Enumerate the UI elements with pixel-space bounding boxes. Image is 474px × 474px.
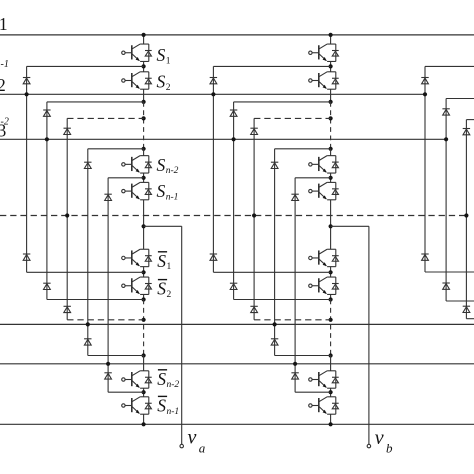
svg-text:2: 2 (0, 75, 6, 95)
wire clamp rail 3 phase C (vertical) (465, 120, 467, 319)
transistor S-bar-2 phase B (IGBT with antiparallel diode) (309, 277, 339, 294)
wire clamp link lower 1 phase C (to edge) (425, 271, 474, 273)
wire clamp link upper n-1 phase B (295, 177, 331, 179)
node phase A clamp junction above Sn-2 (142, 147, 146, 151)
wire clamp link lower 1 phase B (213, 271, 330, 273)
node phase B dashed clamp junction (lower) (329, 318, 333, 322)
wire clamp link upper 3 phase C (to edge) (466, 119, 474, 121)
diode clamp upper D1 phase B (210, 78, 217, 84)
diode clamp upper D4 phase B (271, 162, 278, 168)
wire phase B leg: S-bar-2 emitter to clamp node (330, 294, 332, 299)
svg-text:S: S (157, 395, 166, 415)
node clamp rail 3 (dashed level) phase A bus junction (65, 213, 69, 217)
diode clamp lower D1' phase C (421, 254, 428, 260)
svg-text:S: S (157, 369, 166, 389)
wire clamp link lower 2 phase A (47, 299, 144, 301)
wire phase B leg: S2 emitter past bus2 to clamp node (330, 89, 332, 102)
diode clamp upper D1 phase C (421, 78, 428, 84)
wire phase A leg: Sn-2 emitter to Sn-1 collector (143, 173, 145, 182)
wire phase B leg: Sn-2 emitter to Sn-1 collector (330, 173, 332, 182)
svg-text:b: b (386, 440, 393, 455)
wire clamp link lower 1 phase A (27, 271, 144, 273)
terminal v_a (open circle) (180, 444, 184, 448)
transistor S2 phase A (IGBT with antiparallel diode) (122, 72, 152, 89)
svg-text:a: a (199, 440, 206, 455)
svg-text:S: S (157, 155, 166, 175)
wire clamp link upper 2 phase A (47, 101, 144, 103)
wire bus 1 (top DC rail, node 1) (0, 34, 474, 36)
diode clamp upper D3 phase B (250, 128, 257, 134)
terminal v_b (open circle) (367, 444, 371, 448)
wire bus n-1 (0, 363, 474, 365)
node phase A bottom bus junction (142, 422, 146, 426)
svg-text:n-1: n-1 (166, 193, 179, 203)
wire phase A leg: S-bar-2 emitter to clamp node (143, 294, 145, 299)
svg-text:2: 2 (166, 83, 171, 93)
node phase B bottom bus junction (329, 422, 333, 426)
svg-text:n-1: n-1 (167, 407, 180, 417)
node phase A S-bar-n-2/S-bar-n-1 junction (142, 390, 146, 394)
transistor S1 phase B (IGBT with antiparallel diode) (309, 44, 339, 61)
svg-text:1: 1 (0, 14, 8, 34)
diode clamp upper D3 phase A (63, 128, 70, 134)
transistor S2 phase B (IGBT with antiparallel diode) (309, 72, 339, 89)
wire clamp rail 3 (dashed level) phase B (vertical) (253, 118, 255, 319)
node phase A dashed clamp junction (upper) (142, 116, 146, 120)
wire clamp link lower 2 phase C (to edge) (446, 300, 474, 302)
wire phase B leg dashed continuation (lower) (330, 300, 332, 356)
wire phase A leg dashed continuation (lower) (143, 300, 145, 356)
node clamp rail 1 phase B bus junction (211, 92, 215, 96)
node clamp rail 1 phase C bus junction (423, 92, 427, 96)
node clamp rail 2 phase B bus junction (232, 137, 236, 141)
node phase A output junction (142, 224, 146, 228)
wire clamp rail 2 phase C (vertical) (445, 99, 447, 302)
wire clamp link upper 3 (dashed level) phase B (254, 117, 331, 119)
node clamp rail 1 phase A bus junction (25, 92, 29, 96)
wire clamp link upper 1 phase A (27, 65, 144, 67)
wire clamp rail 3 (dashed level) phase A (vertical) (66, 118, 68, 319)
wire clamp link upper 2 phase C (to edge) (446, 98, 474, 100)
wire clamp rail n-1 phase A (vertical) (107, 178, 109, 392)
wire clamp link upper n-2 phase B (275, 148, 331, 150)
svg-text:1: 1 (166, 56, 171, 66)
wire clamp link lower 3 (dashed level) phase B (254, 319, 331, 321)
svg-text:S: S (157, 45, 166, 65)
wire clamp link lower n-2 phase B (275, 355, 331, 357)
node clamp rail n-1 phase A bus junction (106, 362, 110, 366)
node phase A S1-S2 junction (142, 64, 146, 68)
wire clamp link lower n-1 phase B (295, 391, 331, 393)
wire clamp rail 1 phase B (vertical) (212, 66, 214, 272)
diode clamp lower D2' phase C (442, 283, 449, 289)
transistor S-bar-n-1 phase A (IGBT with antiparallel diode) (122, 397, 152, 414)
wire phase A leg: bus1 to S1 collector (143, 35, 145, 44)
node clamp rail n-2 phase B bus junction (273, 322, 277, 326)
diode clamp lower D5' phase A (104, 373, 111, 379)
node phase A clamp junction above S-bar-n-2 (142, 353, 146, 357)
wire phase B leg dashed continuation (upper) (330, 102, 332, 149)
node phase B output junction (329, 224, 333, 228)
wire clamp link lower n-2 phase A (88, 355, 144, 357)
svg-text:S: S (157, 279, 166, 299)
wire clamp link upper 1 phase C (to edge) (425, 65, 474, 67)
wire bus 2 (node 2) (0, 93, 425, 95)
svg-text:3: 3 (0, 120, 7, 140)
svg-text:S: S (157, 251, 166, 271)
svg-text:S: S (157, 181, 166, 201)
node clamp rail 2 phase C bus junction (444, 137, 448, 141)
svg-text:2: 2 (167, 290, 172, 300)
diode clamp upper D5 phase B (291, 194, 298, 200)
node phase B bus1 junction (329, 33, 333, 37)
wire clamp link upper 2 phase B (234, 101, 331, 103)
wire phase B leg: S-bar-n-1 emitter to bottom bus (330, 414, 332, 424)
wire phase A output horizontal (144, 225, 182, 227)
node phase A Sn-2/Sn-1 junction (142, 176, 146, 180)
svg-text:S: S (157, 72, 166, 92)
svg-text:n-2: n-2 (167, 380, 180, 390)
wire clamp rail n-1 phase B (vertical) (294, 178, 296, 392)
node phase B clamp junction above S-bar-n-2 (329, 353, 333, 357)
node phase A clamp junction below S-bar-2 (142, 297, 146, 301)
transistor S-bar-2 phase A (IGBT with antiparallel diode) (122, 277, 152, 294)
wire clamp link lower n-1 phase A (108, 391, 144, 393)
node phase A bus1 junction (142, 33, 146, 37)
transistor Sn-2 phase B (IGBT with antiparallel diode) (309, 156, 339, 173)
transistor S-bar-1 phase B (IGBT with antiparallel diode) (309, 249, 339, 266)
wire clamp rail 1 phase A (vertical) (26, 66, 28, 272)
node phase A dashed clamp junction (lower) (142, 318, 146, 322)
svg-text:v: v (375, 427, 384, 449)
diode clamp lower D3' phase B (250, 306, 257, 312)
diode clamp lower D5' phase B (291, 373, 298, 379)
diode clamp upper D2 phase C (442, 109, 449, 115)
svg-text:v: v (188, 427, 197, 449)
wire clamp link lower 3 (dashed level) phase A (67, 319, 143, 321)
wire phase B leg: Sn-1 emitter to output node and S-bar-1 (330, 200, 332, 249)
transistor S-bar-n-1 phase B (IGBT with antiparallel diode) (309, 397, 339, 414)
svg-text:1: 1 (167, 262, 172, 272)
wire phase B leg: clamp node to Sn-2 collector (330, 149, 332, 156)
diode clamp lower D1' phase A (23, 254, 30, 260)
wire clamp rail n-2 phase A (vertical) (87, 149, 89, 356)
diode clamp lower D4' phase A (84, 339, 91, 345)
diode clamp lower D3' phase C (463, 306, 470, 312)
wire phase A leg: clamp node to S-bar-n-2 collector (143, 356, 145, 371)
transistor Sn-1 phase A (IGBT with antiparallel diode) (122, 182, 152, 199)
node clamp rail 3 (dashed level) phase B bus junction (252, 213, 256, 217)
wire phase A leg: Sn-1 emitter to output node and S-bar-1 (143, 200, 145, 249)
wire clamp link upper 1 phase B (213, 65, 330, 67)
svg-text:n-2: n-2 (166, 166, 179, 176)
wire clamp rail 1 phase C (vertical) (424, 66, 426, 272)
node phase B S-bar-n-2/S-bar-n-1 junction (329, 390, 333, 394)
wire clamp rail 2 phase A (vertical) (46, 102, 48, 300)
wire clamp link lower 2 phase B (234, 299, 331, 301)
diode clamp lower D3' phase A (63, 306, 70, 312)
wire bus 3 (node 3) (0, 138, 446, 140)
wire phase A leg: S1 emitter to S2 collector (143, 62, 145, 72)
wire phase B leg: S-bar-n-2 emitter to S-bar-n-1 collector (330, 388, 332, 397)
node phase A S-bar-1/S-bar-2 junction (142, 270, 146, 274)
diode clamp lower D4' phase B (271, 339, 278, 345)
diode clamp upper D5 phase A (104, 194, 111, 200)
wire phase A leg: S-bar-n-2 emitter to S-bar-n-1 collector (143, 388, 145, 397)
wire phase A output vertical to terminal (181, 226, 183, 444)
wire phase B leg: bus1 to S1 collector (330, 35, 332, 44)
wire phase B output horizontal (331, 225, 369, 227)
node phase B clamp junction below S-bar-2 (329, 297, 333, 301)
wire clamp link upper n-1 phase A (108, 177, 144, 179)
diode clamp upper D3 phase C (463, 129, 470, 135)
transistor S1 phase A (IGBT with antiparallel diode) (122, 44, 152, 61)
node phase B clamp junction above Sn-2 (329, 147, 333, 151)
node phase B Sn-2/Sn-1 junction (329, 176, 333, 180)
wire phase A leg: S2 emitter past bus2 to clamp node (143, 89, 145, 102)
wire phase B leg: S-bar-1 emitter to S-bar-2 collector (330, 267, 332, 278)
wire bus n-2 (0, 323, 474, 325)
diode clamp lower D2' phase A (43, 283, 50, 289)
wire clamp link lower 3 phase C (to edge) (466, 318, 474, 320)
node clamp rail n-1 phase B bus junction (293, 362, 297, 366)
wire phase B leg: S1 emitter to S2 collector (330, 62, 332, 72)
node phase B S-bar-1/S-bar-2 junction (329, 270, 333, 274)
svg-text:n-1: n-1 (0, 59, 9, 70)
wire phase A leg: clamp node to Sn-2 collector (143, 149, 145, 156)
transistor S-bar-n-2 phase A (IGBT with antiparallel diode) (122, 371, 152, 388)
diode clamp lower D1' phase B (210, 254, 217, 260)
node phase A clamp junction below S2 (142, 100, 146, 104)
node clamp rail n-2 phase A bus junction (86, 322, 90, 326)
node phase B clamp junction below S2 (329, 100, 333, 104)
wire clamp rail 2 phase B (vertical) (233, 102, 235, 300)
transistor S-bar-n-2 phase B (IGBT with antiparallel diode) (309, 371, 339, 388)
node clamp rail 3 phase C bus junction (464, 213, 468, 217)
wire phase B output vertical to terminal (368, 226, 370, 444)
wire phase A leg: S-bar-n-1 emitter to bottom bus (143, 414, 145, 424)
wire bus n (bottom DC rail) (0, 423, 474, 425)
wire dashed middle bus (continuation) (0, 215, 466, 217)
node clamp rail 2 phase A bus junction (45, 137, 49, 141)
wire phase A leg dashed continuation (upper) (143, 102, 145, 149)
wire clamp link upper 3 (dashed level) phase A (67, 117, 143, 119)
diode clamp upper D2 phase B (230, 110, 237, 116)
node phase B dashed clamp junction (upper) (329, 116, 333, 120)
diode clamp upper D2 phase A (43, 110, 50, 116)
transistor Sn-2 phase A (IGBT with antiparallel diode) (122, 156, 152, 173)
diode clamp upper D4 phase A (84, 162, 91, 168)
wire phase B leg: clamp node to S-bar-n-2 collector (330, 356, 332, 371)
wire clamp link upper n-2 phase A (88, 148, 144, 150)
transistor S-bar-1 phase A (IGBT with antiparallel diode) (122, 249, 152, 266)
wire clamp rail n-2 phase B (vertical) (274, 149, 276, 356)
diode clamp lower D2' phase B (230, 283, 237, 289)
diode clamp upper D1 phase A (23, 78, 30, 84)
node phase B S1-S2 junction (329, 64, 333, 68)
wire phase A leg: S-bar-1 emitter to S-bar-2 collector (143, 267, 145, 278)
transistor Sn-1 phase B (IGBT with antiparallel diode) (309, 182, 339, 199)
